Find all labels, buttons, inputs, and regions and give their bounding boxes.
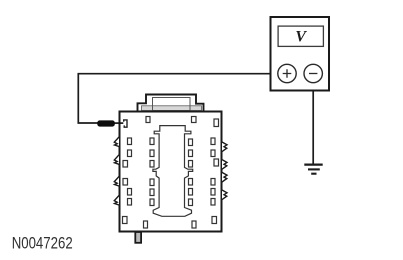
bottom row pins: [123, 217, 128, 224]
wire from voltmeter minus terminal to ground: [312, 83, 314, 165]
plus terminal: [278, 64, 296, 82]
wire from voltmeter plus terminal to probe: [78, 74, 278, 123]
svg-text:N0047262: N0047262: [12, 234, 73, 253]
top row pins: [146, 117, 150, 123]
right side bump 2: [222, 160, 227, 170]
connector top tab inner thin rect wide: [142, 106, 202, 111]
voltmeter U1 box: [271, 17, 330, 91]
right side bump 3: [222, 172, 227, 182]
left side bump 1: [114, 137, 119, 147]
right side bump 1: [222, 142, 227, 152]
connector top tab thick outline: [138, 95, 204, 111]
left side bump 3: [114, 177, 119, 187]
minus terminal: [304, 64, 322, 82]
connector top tab inner thin rect: [153, 98, 191, 111]
bottom tab: [135, 232, 141, 243]
test probe body: [97, 120, 115, 126]
connector top tab gray band: [142, 106, 201, 110]
left side bump 2: [114, 155, 119, 165]
pin being probed (open-left bracket): [124, 120, 127, 127]
connector body: [120, 112, 222, 232]
test probe needle: [113, 122, 123, 124]
upper grid pins: [128, 138, 132, 145]
svg-text:V: V: [295, 29, 307, 46]
center cavity slot: [153, 126, 193, 217]
lower grid pins: [123, 179, 128, 186]
ground: [304, 165, 322, 174]
left side bump 4: [114, 196, 119, 206]
voltmeter display: [278, 26, 323, 46]
right side bump 4: [222, 190, 227, 200]
